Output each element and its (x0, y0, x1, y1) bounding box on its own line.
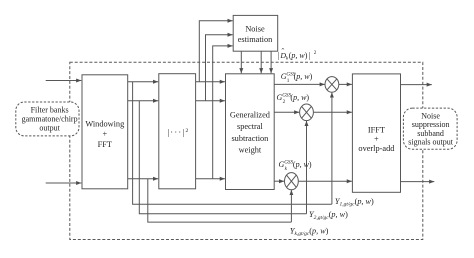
wire: G1 gain to multiplier 1 (274, 83, 325, 85)
wire: multiplier 2 to IFFT (314, 111, 352, 113)
svg-text:estimation: estimation (238, 35, 273, 44)
block: noise estimation (233, 15, 278, 51)
svg-text:Windowing: Windowing (85, 119, 124, 128)
wire: windowing to squarer ch1 (128, 81, 159, 83)
svg-text:Noise: Noise (421, 112, 440, 121)
svg-text:output: output (39, 123, 60, 132)
svg-text:1: 1 (287, 78, 290, 84)
svg-text:ˆ: ˆ (282, 47, 285, 56)
svg-text:|: | (309, 51, 311, 60)
input terminal: filter banks gammatone/chirp output (16, 102, 79, 136)
wire: squarer to GSS chk (196, 178, 225, 180)
svg-text:signals output: signals output (408, 138, 453, 147)
wire: tap ch1 down (133, 82, 332, 205)
wire: input channel 1 arrow (46, 80, 82, 82)
wire: noise estimate down 2 (260, 51, 262, 73)
svg-text:overlp-add: overlp-add (358, 144, 395, 153)
wire: riser to multiplier 1 (331, 92, 333, 204)
svg-text:subtraction: subtraction (231, 134, 269, 143)
svg-text:(p, w): (p, w) (294, 72, 313, 81)
output terminal: noise suppression subband signals output (403, 108, 457, 149)
wire: output chk (401, 181, 435, 183)
wire: riser to multiplier 3 (290, 190, 292, 222)
svg-text:+: + (374, 134, 379, 143)
label: Gk gain (279, 160, 312, 173)
wire: input channel k arrow (46, 182, 82, 184)
multiplier 2 (300, 104, 314, 121)
svg-text:gammatone/chirp: gammatone/chirp (22, 115, 78, 124)
svg-text:+: + (102, 130, 107, 139)
wire: squarer to GSS ch2 (196, 100, 225, 102)
block: IFFT + overlap-add (352, 74, 400, 192)
svg-text:Filter banks: Filter banks (31, 105, 69, 114)
multiplier 1 (325, 77, 339, 93)
wire: ch1 riser to noise estimation (199, 21, 232, 82)
wire: windowing to squarer chk (128, 178, 159, 180)
wire: Gk gain to multiplier 3 (274, 180, 284, 182)
label: G1 gain (281, 71, 313, 84)
dashed system boundary box (70, 62, 423, 239)
svg-text:subband: subband (417, 129, 444, 138)
wire: ch2 riser to noise estimation (206, 35, 233, 101)
svg-text:Noise: Noise (245, 25, 265, 34)
wire: multiplier 1 to IFFT (339, 83, 352, 85)
wire: output ch1 (401, 84, 432, 86)
wire: windowing to squarer ch2 (128, 100, 159, 102)
wire: riser to multiplier 2 (306, 121, 308, 214)
svg-text:(p, w): (p, w) (290, 93, 309, 102)
svg-text:2: 2 (283, 99, 286, 105)
block: windowing + FFT (82, 75, 128, 189)
svg-text:2: 2 (314, 50, 317, 56)
wire: G2 gain to multiplier 2 (274, 111, 299, 113)
svg-text:spectral: spectral (237, 122, 263, 131)
svg-text:(p, w): (p, w) (293, 160, 312, 169)
label: noise estimate |D_k(p,w)|^2 (278, 47, 317, 61)
label: G2 gain (277, 92, 310, 105)
multiplier 3 (285, 173, 299, 190)
svg-text:Generalized: Generalized (230, 110, 271, 119)
svg-text:FFT: FFT (98, 140, 112, 149)
wire: squarer to GSS ch1 (196, 81, 225, 83)
wire: tap ch2 down (139, 101, 306, 214)
wire: noise estimate down 3 (270, 51, 272, 73)
block: generalized spectral subtraction weight (226, 74, 275, 190)
svg-text:(p, w): (p, w) (289, 51, 308, 60)
svg-text:weight: weight (239, 146, 262, 155)
svg-text:|: | (278, 51, 280, 60)
wire: chk riser to noise estimation (213, 46, 233, 179)
svg-text:IFFT: IFFT (368, 125, 385, 134)
svg-text:suppression: suppression (412, 120, 450, 129)
svg-text:|···|2: |···|2 (167, 128, 188, 137)
wire: tap chk down (148, 179, 292, 222)
wire: multiplier 3 to IFFT (299, 180, 352, 182)
wire: noise estimate down 1 (240, 51, 242, 73)
block: magnitude squarer (159, 74, 196, 189)
